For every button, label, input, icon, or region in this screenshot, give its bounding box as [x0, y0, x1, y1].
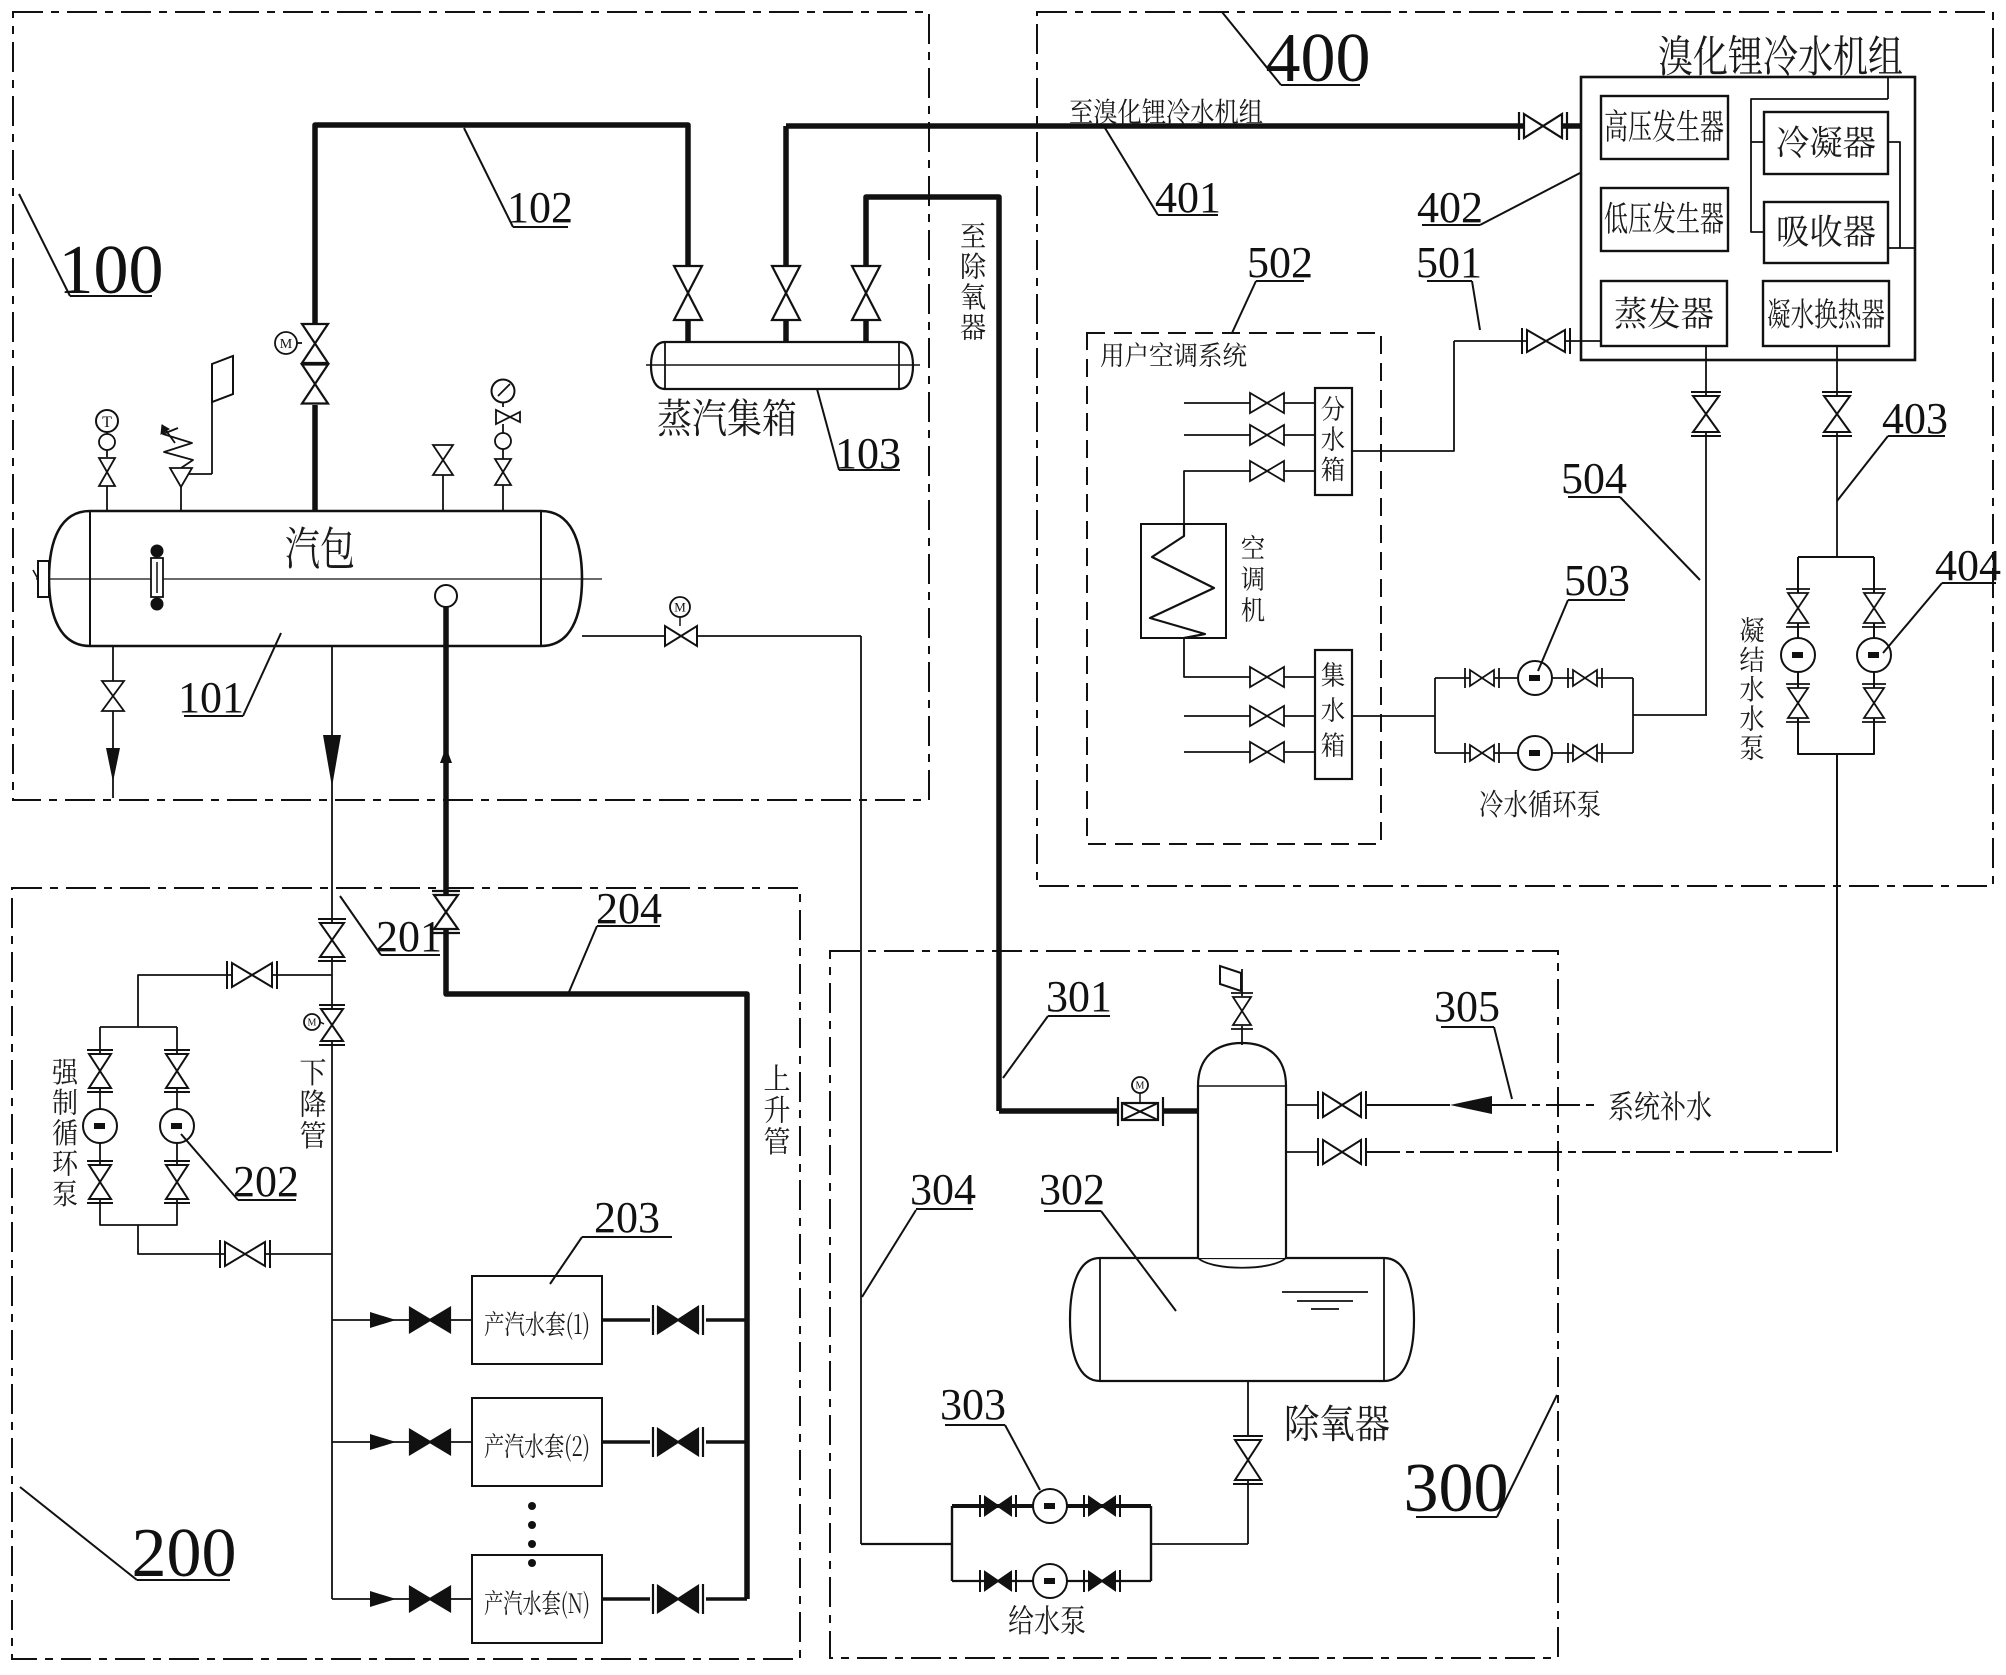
water jacket box 产汽水套(2)	[472, 1398, 602, 1486]
svg-text:M: M	[308, 1018, 317, 1029]
feedwater line 304 vertical	[860, 636, 862, 1544]
label 300	[1497, 1395, 1557, 1517]
svg-text:501: 501	[1416, 238, 1482, 287]
condensate heat exchanger bottom valve line	[1836, 346, 1838, 396]
water jacket inlet line y=1442	[332, 1441, 410, 1443]
steam pipe to deaerator	[866, 197, 999, 1111]
svg-text:305: 305	[1434, 982, 1500, 1031]
water jacket box 产汽水套(1)	[472, 1276, 602, 1364]
label 204	[569, 926, 597, 992]
label 102	[464, 128, 513, 227]
forced circulation pump left 202	[83, 1109, 117, 1143]
label 502	[1232, 281, 1256, 333]
vent flag	[212, 356, 233, 402]
downcomer from drum	[331, 646, 333, 923]
feed pump upper branch	[952, 1504, 1151, 1508]
evaporator bottom valve line	[1705, 346, 1707, 396]
AC supply line 3	[1184, 471, 1315, 524]
valve upper right branch	[166, 1054, 188, 1088]
svg-text:202: 202	[233, 1157, 299, 1206]
condensate pump right branch	[1864, 593, 1884, 623]
condensate return line into deaerator	[1286, 1151, 1318, 1153]
label 101	[243, 633, 281, 716]
label 至除氧器 (to deaerator) vertical	[961, 223, 986, 341]
feed pump lower branch	[952, 1580, 1151, 1582]
drum left manhole nozzle	[38, 561, 49, 597]
label 301	[1003, 1016, 1048, 1078]
label 504	[1620, 497, 1700, 580]
svg-text:200: 200	[132, 1515, 237, 1592]
motor valve on downcomer	[321, 1009, 343, 1041]
header valve 2	[772, 266, 800, 320]
LiBr chiller unit outer box 402	[1581, 77, 1915, 360]
chilled pump lower branch	[1435, 752, 1633, 754]
border box 300 (deaerator feedwater system)	[830, 951, 1558, 1658]
label 404	[1883, 583, 1942, 653]
AC return line 2	[1184, 715, 1315, 717]
steam line 301 to deaerator	[999, 1108, 1118, 1114]
header valve 3	[852, 266, 880, 320]
deaerator head vessel	[1198, 1043, 1286, 1258]
condensate pump loop 403/404	[1798, 556, 1874, 558]
steam drum 101 vessel	[49, 511, 582, 646]
collection tank 集水箱	[1315, 650, 1352, 779]
label 402	[1480, 173, 1580, 225]
steam pipe to chiller 401	[783, 126, 789, 266]
deaerator tank 302	[1070, 1258, 1414, 1381]
label 除氧器 (deaerator)	[1287, 1404, 1389, 1441]
label 溴化锂冷水机组 (LiBr chiller unit)	[1659, 35, 1902, 76]
svg-text:201: 201	[376, 912, 442, 961]
label 400	[1222, 12, 1281, 85]
valve lower left branch	[89, 1165, 111, 1199]
label 501	[1472, 281, 1480, 330]
label 401	[1105, 128, 1158, 215]
water level mark	[1282, 1291, 1368, 1293]
svg-text:204: 204	[596, 884, 662, 933]
drum blowdown line	[112, 646, 114, 682]
AC supply line 2	[1184, 434, 1315, 436]
label 303	[1005, 1425, 1040, 1490]
pump loop lower return	[138, 1225, 332, 1254]
svg-text:403: 403	[1882, 394, 1948, 443]
condensate heat exchanger box	[1763, 281, 1889, 346]
riser pipe 204	[446, 930, 747, 1599]
svg-text:304: 304	[910, 1165, 976, 1214]
distribution tank 分水箱	[1315, 388, 1352, 495]
ellipsis dots between jackets	[528, 1502, 536, 1510]
chilled pump upper branch	[1435, 677, 1633, 679]
label 强制循环泵 (forced circulation pump) vertical	[53, 1058, 78, 1206]
makeup water line 305	[1286, 1104, 1318, 1106]
label 上升管 (riser) vertical	[765, 1064, 790, 1154]
label 至溴化锂冷水机组 (to LiBr chiller)	[1070, 98, 1262, 124]
AC return line 3	[1184, 751, 1315, 753]
safety valve on drum	[180, 487, 182, 511]
svg-text:103: 103	[835, 429, 901, 478]
label 下降管 (downcomer) vertical	[301, 1059, 326, 1149]
label 203	[550, 1237, 582, 1284]
chilled water pump loop 503	[1352, 715, 1435, 717]
svg-text:M: M	[280, 337, 293, 352]
label 201	[340, 896, 381, 955]
svg-text:M: M	[674, 600, 686, 615]
suction from 304 line	[861, 1543, 952, 1545]
label 凝结水水泵 (condensate water pump) vertical	[1740, 617, 1764, 760]
border box 100 (steam drum system)	[13, 12, 929, 800]
svg-text:400: 400	[1266, 20, 1371, 97]
motor valve on main steam outlet 102	[312, 405, 318, 511]
steam header 103 vessel	[651, 342, 913, 389]
svg-text:303: 303	[940, 1380, 1006, 1429]
svg-text:302: 302	[1039, 1165, 1105, 1214]
vent valve and flag on deaerator	[1241, 1026, 1243, 1045]
forced circulation pump right	[160, 1109, 194, 1143]
water jacket outlet line	[602, 1597, 650, 1601]
user air conditioning system box 502	[1087, 333, 1381, 844]
condensate pump left branch	[1788, 593, 1808, 623]
valve 201 on downcomer	[320, 923, 344, 957]
AC return line 1	[1184, 638, 1315, 677]
header valve 1	[674, 266, 702, 320]
svg-text:301: 301	[1046, 972, 1112, 1021]
svg-text:402: 402	[1417, 183, 1483, 232]
label 200	[20, 1487, 137, 1580]
label 系统补水 (system makeup water)	[1609, 1091, 1711, 1121]
high pressure generator box	[1601, 96, 1728, 159]
water jacket box 产汽水套(N)	[472, 1555, 602, 1643]
forced circulation pump loop	[100, 1026, 177, 1028]
riser connection to drum	[435, 585, 457, 607]
label 103	[817, 389, 839, 470]
svg-text:502: 502	[1247, 238, 1313, 287]
evaporator box	[1601, 281, 1727, 346]
valve on riser	[434, 895, 458, 929]
label 汽包 (steam drum)	[286, 526, 353, 568]
label 302	[1101, 1211, 1176, 1311]
small valve on drum top	[433, 445, 453, 475]
svg-text:102: 102	[507, 183, 573, 232]
water jacket outlet line	[602, 1318, 650, 1322]
chilled water supply line 501	[1454, 340, 1527, 342]
water jacket inlet line y=1320	[332, 1319, 410, 1321]
valve lower right branch	[166, 1165, 188, 1199]
label 503	[1538, 600, 1568, 671]
pressure gauge stack on drum	[492, 380, 515, 403]
air conditioner box with coil	[1141, 524, 1226, 638]
continuous blowdown line from drum right	[582, 635, 665, 637]
svg-text:203: 203	[594, 1193, 660, 1242]
label 蒸汽集箱 (steam header)	[658, 398, 795, 436]
svg-text:300: 300	[1404, 1450, 1509, 1527]
label 给水泵 (feed pump)	[1009, 1605, 1085, 1635]
label 305	[1494, 1027, 1512, 1099]
svg-text:404: 404	[1935, 541, 2001, 590]
label 100	[19, 194, 70, 296]
svg-text:100: 100	[59, 232, 164, 309]
svg-text:M: M	[1136, 1081, 1145, 1092]
motor control valve on 301	[1122, 1103, 1158, 1120]
pump bypass upper line	[138, 975, 332, 1027]
svg-text:401: 401	[1155, 173, 1221, 222]
drum water level gauge	[151, 545, 164, 558]
water jacket inlet line y=1599	[332, 1598, 410, 1600]
valve on chiller steam pipe	[1524, 114, 1562, 138]
chiller internal connections	[1887, 77, 1889, 99]
thermometer T on drum	[96, 410, 118, 432]
label 冷水循环泵 (chilled water circulation pump)	[1480, 790, 1600, 818]
feed pump loop 303	[951, 1506, 953, 1581]
label 202	[181, 1134, 238, 1200]
label 304	[862, 1210, 916, 1297]
svg-text:504: 504	[1561, 454, 1627, 503]
drum centerline	[36, 578, 602, 580]
label 用户空调系统 (user AC system)	[1101, 342, 1246, 367]
svg-text:T: T	[102, 414, 112, 431]
valve upper left branch	[89, 1054, 111, 1088]
deaerator outlet to feed pumps	[1247, 1381, 1249, 1437]
border box 400 (LiBr chiller system)	[1037, 12, 1993, 886]
low pressure generator box	[1601, 188, 1728, 251]
water jacket outlet line	[602, 1440, 650, 1444]
main steam pipe 102	[315, 125, 688, 324]
condenser box	[1764, 112, 1888, 174]
AC supply line 1	[1184, 402, 1315, 404]
svg-text:503: 503	[1564, 556, 1630, 605]
svg-text:101: 101	[178, 673, 244, 722]
border box 200 (water jacket circulation system)	[12, 888, 800, 1659]
absorber box	[1764, 202, 1888, 263]
label 403	[1837, 436, 1888, 501]
